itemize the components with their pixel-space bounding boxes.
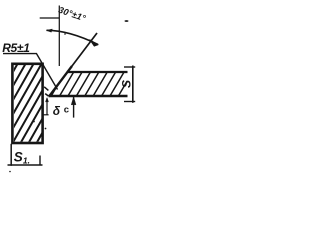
svg-text:δ: δ <box>53 104 61 118</box>
svg-text:S: S <box>120 80 134 88</box>
svg-text:c: c <box>64 105 69 116</box>
svg-text:R5±1: R5±1 <box>2 41 30 55</box>
